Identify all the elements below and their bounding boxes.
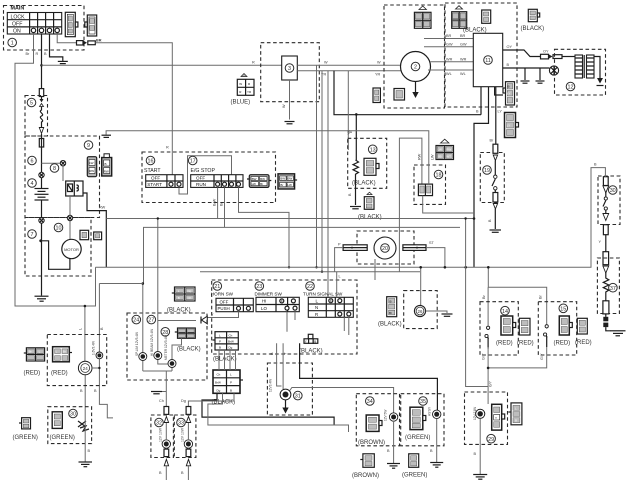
ground 26 xyxy=(442,314,453,316)
wire 3 to ground xyxy=(289,80,291,120)
node lineB a xyxy=(444,266,447,269)
bulb 24 dashed box xyxy=(47,335,106,386)
generator small connector b xyxy=(394,89,405,101)
svg-text:RUN: RUN xyxy=(196,182,206,187)
svg-text:Dg: Dg xyxy=(188,289,192,293)
svg-text:(BLACK): (BLACK) xyxy=(299,349,323,355)
svg-text:12: 12 xyxy=(568,85,574,91)
resistor 13 connector xyxy=(364,158,379,175)
main fuse holder xyxy=(39,139,43,148)
start switch 16 dashed box xyxy=(142,152,276,203)
resistor 37 xyxy=(603,273,609,296)
wire bulb24 box vertical L xyxy=(84,306,86,408)
wire 32 ground xyxy=(165,466,167,480)
node lineB b xyxy=(464,266,467,269)
horn Y feed through meter box xyxy=(158,320,196,322)
horn unit dashed box xyxy=(48,407,92,444)
resistor 13 xyxy=(353,160,359,176)
svg-text:G/Y: G/Y xyxy=(482,353,486,360)
circled 16 xyxy=(146,156,155,165)
turn bulb 32 chain top xyxy=(164,407,169,415)
svg-text:B: B xyxy=(178,296,180,300)
svg-text:R: R xyxy=(252,61,255,65)
wire 13 to ground xyxy=(355,176,357,205)
wire bulb24 box vertical B xyxy=(99,284,113,418)
circled 34 xyxy=(366,397,375,406)
wire B grounds xyxy=(525,68,540,80)
svg-text:BR: BR xyxy=(96,39,102,43)
spark plug xyxy=(549,66,558,75)
connector 14 mate xyxy=(519,318,530,335)
circled 27 xyxy=(147,315,156,324)
wire B bus left xyxy=(334,71,481,115)
main switch 1 dashed box xyxy=(4,6,85,51)
svg-text:29: 29 xyxy=(488,437,494,443)
svg-text:14: 14 xyxy=(502,309,508,315)
svg-text:BW: BW xyxy=(260,177,265,181)
horn symbol xyxy=(201,316,207,324)
svg-text:12V3.4W: 12V3.4W xyxy=(269,379,273,392)
svg-text:ON: ON xyxy=(13,29,21,35)
connector 35 xyxy=(410,407,426,429)
wire 26 to ground xyxy=(426,311,447,313)
svg-text:3: 3 xyxy=(288,66,291,72)
fuse 5 element xyxy=(40,107,42,128)
svg-text:B: B xyxy=(515,419,517,423)
ground B1 xyxy=(521,81,530,83)
svg-text:Dg: Dg xyxy=(229,346,233,350)
svg-text:Ch: Ch xyxy=(188,296,192,300)
svg-text:(BLACK): (BLACK) xyxy=(177,347,201,353)
svg-text:21: 21 xyxy=(214,284,220,290)
wires conn1 to conn2 xyxy=(219,350,236,370)
wire OY to box 12 xyxy=(562,56,575,58)
ground 35 xyxy=(430,463,443,468)
connector BLUE xyxy=(237,74,254,96)
circled 2 xyxy=(411,62,420,71)
wire YR into 13 xyxy=(347,71,349,150)
switch 14 contacts xyxy=(487,329,489,349)
turn bulb 33 chain bottom xyxy=(186,449,191,457)
ground 13 xyxy=(350,207,361,209)
circled 7 xyxy=(28,230,37,239)
fuse 37 top xyxy=(603,252,609,265)
tail 35 dashed box xyxy=(401,394,444,446)
svg-text:R: R xyxy=(36,52,39,56)
cdi bottom wire B xyxy=(480,87,482,115)
connector pair near egstop inside xyxy=(247,175,271,188)
wire turn downs xyxy=(331,297,349,335)
meter bulb c xyxy=(168,360,176,368)
wire bullet to start switch xyxy=(95,43,172,175)
wire bulb36 to bulb34 xyxy=(290,388,394,414)
flasher ground arrow xyxy=(285,400,287,408)
svg-text:START: START xyxy=(144,168,161,174)
svg-text:(RED): (RED) xyxy=(554,341,571,347)
svg-text:W: W xyxy=(282,104,286,108)
svg-text:DIMMER SW: DIMMER SW xyxy=(255,291,283,296)
wire Br from egstop col2 xyxy=(224,187,226,227)
svg-text:OFF: OFF xyxy=(196,176,205,181)
svg-text:P: P xyxy=(219,340,221,344)
circled 17 xyxy=(188,156,197,165)
generator small connector a xyxy=(373,88,380,103)
flasher bulb 36 xyxy=(280,389,291,400)
svg-text:12V 10W: 12V 10W xyxy=(181,427,185,442)
circled 20 xyxy=(381,244,390,253)
svg-text:23: 23 xyxy=(256,284,262,290)
isolated connector top right xyxy=(528,9,539,21)
connector pair right of motor xyxy=(80,230,102,239)
ground unit 3 xyxy=(285,122,295,124)
unit 3 box xyxy=(282,56,298,80)
svg-text:G/Y: G/Y xyxy=(489,380,493,387)
svg-text:LOCK: LOCK xyxy=(11,14,26,20)
wire branch YR down xyxy=(321,71,323,272)
wire branch W down xyxy=(316,65,318,267)
cdi small connector xyxy=(482,10,491,23)
node y218 x474 xyxy=(473,217,476,220)
connector B RW black xyxy=(102,154,112,176)
svg-text:(RED): (RED) xyxy=(517,341,534,347)
headlight 20 dashed box xyxy=(357,231,414,264)
svg-text:RW: RW xyxy=(446,147,451,151)
bulb 33 xyxy=(184,440,192,448)
flasher 36 31 dashed box xyxy=(267,363,312,415)
switch 30 chain xyxy=(603,177,609,235)
bullet arrow 19 xyxy=(493,155,497,161)
wire WL gen to cdi xyxy=(428,69,473,71)
svg-text:N: N xyxy=(315,305,318,310)
wire start to egstop xyxy=(179,156,232,194)
wire meter c xyxy=(172,338,182,371)
svg-text:B: B xyxy=(314,340,316,344)
wire 19 to ground xyxy=(494,209,496,229)
bulb 35 xyxy=(433,410,441,418)
svg-text:WR: WR xyxy=(460,58,467,62)
bulb 32 xyxy=(162,440,170,448)
wire meter b xyxy=(158,219,172,365)
cdi 11 dashed box xyxy=(445,3,517,107)
wires below conn2 xyxy=(202,393,334,425)
svg-text:Ch: Ch xyxy=(229,334,233,338)
resistor 37 dashed box xyxy=(597,258,619,314)
svg-text:RW: RW xyxy=(104,169,109,173)
svg-text:GW: GW xyxy=(460,43,467,47)
svg-text:Br: Br xyxy=(29,350,32,354)
wire Br from egstop xyxy=(239,187,290,267)
svg-text:(RED): (RED) xyxy=(496,341,513,347)
connector RED outer xyxy=(24,348,45,361)
wire bulb33 xyxy=(187,423,189,449)
horn switch table xyxy=(216,298,253,311)
svg-text:1: 1 xyxy=(11,41,14,47)
svg-text:24: 24 xyxy=(133,318,139,324)
svg-text:(BLACK): (BLACK) xyxy=(521,26,545,32)
svg-text:LY: LY xyxy=(498,110,503,114)
svg-text:(BLACK): (BLACK) xyxy=(378,322,402,328)
svg-text:WT: WT xyxy=(446,154,451,158)
svg-text:L: L xyxy=(79,328,83,330)
wire dimmer downs xyxy=(282,297,295,331)
svg-text:7: 7 xyxy=(31,232,34,238)
rectifier 18 dashed box xyxy=(414,165,446,204)
circled 22 xyxy=(306,282,315,291)
svg-text:E/G STOP: E/G STOP xyxy=(191,168,216,174)
svg-text:31: 31 xyxy=(295,394,301,400)
svg-text:Br: Br xyxy=(63,350,66,354)
headlight terminal right xyxy=(403,245,426,251)
svg-text:BW: BW xyxy=(288,177,293,181)
svg-text:OFF: OFF xyxy=(151,176,160,181)
svg-text:MAIN: MAIN xyxy=(11,6,25,12)
svg-text:LW: LW xyxy=(431,154,435,160)
ground 37 xyxy=(611,331,626,336)
svg-text:LY: LY xyxy=(507,92,510,96)
circled 21 xyxy=(213,282,222,291)
wire WR gen to cdi xyxy=(431,61,474,63)
bullet arrow below fuse xyxy=(39,128,43,134)
wire meter bottom B xyxy=(143,370,172,372)
svg-text:BW: BW xyxy=(252,177,257,181)
svg-text:GW: GW xyxy=(446,43,453,47)
switch 19 contacts xyxy=(492,161,495,187)
svg-text:PUSH: PUSH xyxy=(218,306,230,311)
wire headlight left xyxy=(335,248,344,272)
wire lineB branch to brake feed xyxy=(488,267,546,326)
connector GREEN inner bl xyxy=(52,412,62,429)
svg-text:YR: YR xyxy=(375,73,381,77)
svg-text:(BROWN): (BROWN) xyxy=(352,473,379,479)
coil ground arrow xyxy=(594,57,600,79)
svg-text:LW: LW xyxy=(288,183,292,187)
wire Lb down xyxy=(466,219,489,387)
connector RED inner xyxy=(53,347,72,362)
node brake14 xyxy=(487,266,490,269)
headlight terminal left xyxy=(343,245,367,251)
wire L into turn table xyxy=(336,272,338,298)
svg-text:W: W xyxy=(377,61,381,65)
svg-text:LY: LY xyxy=(507,124,510,128)
long line y218 xyxy=(106,218,474,220)
node relay bullet xyxy=(67,215,72,220)
meter connector 2x2 xyxy=(175,328,196,338)
wire 30 to 37 xyxy=(605,235,607,252)
wires into flasher xyxy=(277,343,284,389)
bulb24 bullet xyxy=(96,352,103,359)
wire YR out of 3 xyxy=(297,70,402,72)
svg-text:SB: SB xyxy=(438,154,442,158)
svg-text:(BLACK): (BLACK) xyxy=(358,215,382,221)
svg-text:P: P xyxy=(230,381,232,385)
wire horn to ground xyxy=(84,408,86,462)
fuse 19 bottom xyxy=(493,193,498,203)
svg-text:BW: BW xyxy=(280,177,285,181)
svg-text:Dg: Dg xyxy=(181,399,186,403)
svg-text:MOTOR: MOTOR xyxy=(64,247,79,252)
bullet arrow 19b xyxy=(493,204,497,210)
speedo bulb 24 xyxy=(78,361,92,375)
wire 33 ground xyxy=(187,466,189,480)
wire R down to battery xyxy=(41,97,43,296)
wire 37 to ground xyxy=(606,327,611,331)
meter bulb b xyxy=(154,352,162,360)
svg-text:AS'SY: AS'SY xyxy=(428,406,432,416)
connector 29 xyxy=(492,404,505,430)
svg-text:(BROWN): (BROWN) xyxy=(358,440,385,446)
svg-text:BrW: BrW xyxy=(215,381,221,385)
left assembly dashed box lower xyxy=(25,218,91,277)
wire into 13 xyxy=(355,114,357,160)
circled 35 xyxy=(419,397,428,406)
hatch connector 37 xyxy=(603,314,608,327)
cdi lower connector 2 xyxy=(505,113,519,138)
dimmer switch table xyxy=(256,297,299,311)
svg-text:OY: OY xyxy=(543,50,549,54)
wire into 18 a xyxy=(399,138,422,272)
bullet pair on R line xyxy=(40,99,44,107)
connector 14 xyxy=(501,316,516,335)
circled 15 xyxy=(559,304,568,313)
start switch table xyxy=(146,175,183,188)
svg-text:LO: LO xyxy=(261,306,267,311)
node R junction xyxy=(40,64,43,67)
circled 19 xyxy=(483,166,492,175)
wire bulb24 to B xyxy=(92,367,100,369)
connector 15 mate xyxy=(577,318,587,334)
svg-text:35: 35 xyxy=(420,399,426,405)
svg-text:12V 10W: 12V 10W xyxy=(159,427,163,442)
handlebar switch dashed box xyxy=(212,280,357,354)
switch 15 contacts xyxy=(545,328,547,348)
ground B2 xyxy=(536,81,545,83)
wire 35 ground xyxy=(436,419,438,463)
circled 18 xyxy=(434,170,443,179)
svg-text:HI: HI xyxy=(262,299,266,304)
left assembly dashed box upper xyxy=(25,136,100,218)
svg-text:Br: Br xyxy=(389,311,392,315)
cdi bottom wire BW xyxy=(495,87,503,95)
svg-text:RW: RW xyxy=(89,169,94,173)
svg-text:OFF: OFF xyxy=(220,300,229,305)
svg-text:W: W xyxy=(239,82,242,86)
svg-text:(GREEN): (GREEN) xyxy=(50,435,75,441)
circled 24 xyxy=(132,315,141,324)
connector BLACK 3cell right xyxy=(387,297,397,317)
wire hl dimmer xyxy=(374,259,376,280)
svg-text:18: 18 xyxy=(436,173,442,179)
svg-text:32: 32 xyxy=(156,421,162,427)
circled 14 xyxy=(501,306,510,315)
wire branch third down xyxy=(327,71,329,298)
svg-text:2: 2 xyxy=(414,65,417,71)
svg-text:Y: Y xyxy=(495,416,497,420)
circled 29 xyxy=(487,434,496,443)
svg-text:37: 37 xyxy=(610,286,616,292)
svg-text:27: 27 xyxy=(148,318,154,324)
ground 29 xyxy=(473,475,487,480)
ground horn xyxy=(79,462,93,467)
svg-text:LW: LW xyxy=(89,161,93,165)
wire battery to relay xyxy=(42,163,66,181)
svg-text:RW: RW xyxy=(418,153,422,160)
connector LW RW xyxy=(87,157,96,177)
svg-text:OFF: OFF xyxy=(12,21,22,27)
connector hat near 18 xyxy=(436,139,454,159)
svg-text:6: 6 xyxy=(31,159,34,165)
wire 29 ground xyxy=(479,418,481,474)
bullet pair Br xyxy=(77,41,96,45)
svg-text:22: 22 xyxy=(307,284,313,290)
main switch table xyxy=(7,13,61,35)
wire 34 ground xyxy=(393,421,395,463)
wire OY cdi to coil xyxy=(503,50,540,57)
fuse 5 dashed box xyxy=(25,96,48,137)
circled 9 xyxy=(84,141,93,150)
wire Ch chain feed xyxy=(165,371,167,407)
svg-text:B: B xyxy=(230,388,232,392)
wire Br from main switch xyxy=(15,34,96,306)
circled 23 xyxy=(255,282,264,291)
svg-text:W: W xyxy=(324,61,328,65)
bullet arrow 37 xyxy=(603,266,609,273)
svg-text:Ch: Ch xyxy=(217,373,221,377)
circled 31 xyxy=(294,391,303,400)
svg-text:RW: RW xyxy=(99,206,106,210)
headlight bulb 20 xyxy=(374,237,396,259)
headlight relay 19 dashed box xyxy=(480,153,504,203)
bulb 34 xyxy=(389,413,397,421)
rect 37 bottom xyxy=(603,301,609,314)
svg-text:(RED): (RED) xyxy=(51,371,68,377)
turn bulb 32 dashed box xyxy=(151,415,174,458)
node meter b xyxy=(142,282,145,285)
circled 4 xyxy=(28,179,37,188)
egstop table xyxy=(191,175,243,188)
cdi bottom wire LY xyxy=(474,87,489,268)
wire B cdi spark xyxy=(503,67,550,69)
turn signal table xyxy=(308,297,353,317)
svg-text:24: 24 xyxy=(83,366,88,371)
svg-text:30: 30 xyxy=(610,188,616,194)
svg-text:B: B xyxy=(105,162,107,166)
meter bulb a xyxy=(139,353,147,361)
svg-text:(RED): (RED) xyxy=(24,371,41,377)
svg-text:BR: BR xyxy=(446,34,452,38)
cdi connector 2x2 xyxy=(452,6,467,29)
horn unit symbol xyxy=(78,421,89,431)
ground main switch B xyxy=(58,61,68,63)
long line y227 xyxy=(144,227,461,283)
svg-text:30: 30 xyxy=(70,412,76,418)
connector BROWN below xyxy=(360,454,374,468)
svg-text:WL: WL xyxy=(446,72,452,76)
tail 34 dashed box xyxy=(356,394,399,446)
svg-text:Y: Y xyxy=(305,340,307,344)
svg-text:(RED): (RED) xyxy=(575,340,592,346)
svg-text:B/W: B/W xyxy=(213,198,217,206)
wire motor to battery minus xyxy=(41,241,70,269)
ignition coil 12 xyxy=(575,55,594,78)
wire into 26 xyxy=(420,267,422,305)
svg-text:9: 9 xyxy=(87,143,90,149)
node 8 bullet xyxy=(60,161,65,166)
connector pair near egstop outside xyxy=(278,174,297,189)
svg-text:ST: ST xyxy=(429,241,435,245)
svg-text:16: 16 xyxy=(148,159,154,165)
circled 8 xyxy=(50,164,59,173)
node brake join xyxy=(487,367,490,370)
